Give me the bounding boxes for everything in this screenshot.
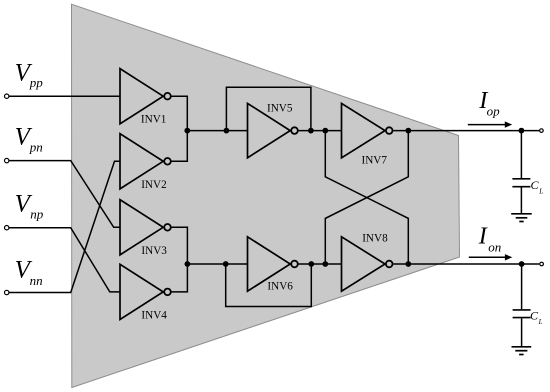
svg-text:INV3: INV3 xyxy=(141,245,167,257)
junction dot cross-coupling top left xyxy=(322,128,328,134)
OTA shaded body (trapezoid) xyxy=(72,4,460,387)
inverter INV4 xyxy=(120,264,171,319)
input terminal Vnp xyxy=(5,226,9,230)
junction dot INV5 input node xyxy=(224,128,230,134)
wire INV2 output to top node xyxy=(172,131,188,162)
wire capacitor to ground (top) xyxy=(520,188,522,214)
wire INV3 output to bottom node xyxy=(172,227,188,264)
ground (bottom) xyxy=(512,347,532,355)
wire bottom node to INV6 input xyxy=(187,263,247,265)
junction dot Iop cap node xyxy=(519,128,525,134)
label Vnn xyxy=(15,256,43,287)
output terminal Ion xyxy=(540,262,544,266)
junction dot INV7 output xyxy=(405,128,411,134)
wire Vnp to INV4 input (crossing) xyxy=(9,228,120,292)
svg-text:L: L xyxy=(538,318,543,326)
inverter INV1 xyxy=(120,69,171,124)
svg-text:C: C xyxy=(531,178,540,192)
inverter INV8 xyxy=(342,237,393,291)
label Vpn xyxy=(15,124,43,155)
label Vnp xyxy=(15,191,44,222)
svg-text:INV6: INV6 xyxy=(267,280,293,292)
junction dot INV8 output xyxy=(405,261,411,267)
inverter INV2 xyxy=(120,134,171,189)
capacitor CL (bottom) xyxy=(513,310,531,318)
label CL top xyxy=(531,178,544,196)
svg-text:INV8: INV8 xyxy=(362,233,388,245)
input terminal Vpn xyxy=(5,158,9,162)
current arrow Ion xyxy=(469,254,513,260)
input terminal Vnn xyxy=(5,290,9,294)
wire Iop node to capacitor CL top xyxy=(520,131,522,178)
wire INV8 output to Ion terminal xyxy=(393,263,539,265)
svg-text:L: L xyxy=(538,187,543,195)
wire capacitor to ground (bottom) xyxy=(521,318,523,346)
svg-text:INV1: INV1 xyxy=(141,114,166,126)
wire Vnn to INV2 input (crossing) xyxy=(9,161,120,292)
junction dot cross-coupling bottom left xyxy=(322,261,328,267)
label CL bottom xyxy=(530,308,543,326)
wire INV6 output to INV8 input xyxy=(299,263,342,265)
svg-text:pn: pn xyxy=(29,140,43,155)
wire INV5 output to INV7 input xyxy=(299,130,342,132)
inverter INV3 xyxy=(120,200,171,255)
junction dot feedback return INV6 xyxy=(308,261,314,267)
wire Vpp to INV1 input xyxy=(9,95,120,97)
svg-text:on: on xyxy=(488,239,501,254)
cross-coupling wire W2 (top-right to bottom-left) xyxy=(325,131,408,264)
wire Ion node to capacitor CL bottom xyxy=(521,264,523,309)
capacitor CL (top) xyxy=(512,179,530,187)
feedback wire around INV6 xyxy=(226,264,312,307)
wire INV7 output to Iop terminal xyxy=(393,130,539,132)
junction dot INV6 input node xyxy=(223,261,229,267)
junction dot Ion cap node xyxy=(519,261,525,267)
wire Vpn to INV3 input (crossing) xyxy=(9,161,120,228)
inverter INV7 xyxy=(342,103,393,157)
ground (top) xyxy=(511,214,532,222)
svg-text:INV7: INV7 xyxy=(362,155,388,167)
svg-text:pp: pp xyxy=(29,75,44,90)
junction dot feedback return INV5 xyxy=(308,128,314,134)
svg-text:INV4: INV4 xyxy=(141,310,167,322)
output terminal Iop xyxy=(540,129,544,133)
svg-text:I: I xyxy=(478,223,488,249)
cross-coupling wire W1 (top-left to bottom-right) xyxy=(325,131,408,264)
wire top node to INV5 input xyxy=(187,130,247,132)
current arrow Iop xyxy=(468,121,512,127)
label Ion xyxy=(478,223,502,254)
junction dot bottom node B xyxy=(185,261,191,267)
label Iop xyxy=(478,88,500,119)
inverter INV6 xyxy=(248,237,298,291)
wire INV1 output to top node xyxy=(172,96,188,130)
label Vpp xyxy=(15,59,44,90)
svg-text:np: np xyxy=(30,207,44,222)
svg-text:nn: nn xyxy=(30,273,43,288)
junction dot top node A xyxy=(184,128,190,134)
inverter INV5 xyxy=(248,103,298,157)
svg-text:INV5: INV5 xyxy=(267,102,293,114)
input terminal Vpp xyxy=(5,94,9,98)
svg-text:op: op xyxy=(487,103,501,118)
feedback wire around INV5 xyxy=(226,87,311,130)
svg-text:INV2: INV2 xyxy=(141,179,166,191)
wire INV4 output to bottom node xyxy=(172,264,188,292)
